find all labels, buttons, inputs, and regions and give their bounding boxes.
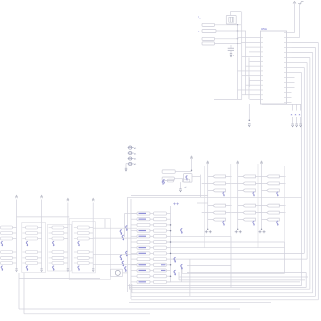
mid cell column 6 xyxy=(232,161,262,233)
wire feeder x24 xyxy=(23,273,25,314)
buzzer LS1 xyxy=(111,269,128,276)
header P1 pin2 xyxy=(202,30,246,33)
wire net R2 xyxy=(131,48,316,297)
box around cell 2 xyxy=(22,223,46,273)
wire nested N5 xyxy=(129,301,271,303)
wire row6 route xyxy=(167,247,285,249)
wire crystal top xyxy=(231,12,242,16)
wire ladder x237 xyxy=(237,25,239,99)
wire left edge A xyxy=(127,197,129,292)
ground G4 xyxy=(179,189,181,192)
mid cell edge 4 xyxy=(284,166,286,242)
net label RX xyxy=(199,30,200,33)
svg-text:z: z xyxy=(233,55,234,57)
junction dots top xyxy=(237,24,238,44)
wire ladder x241 xyxy=(241,12,243,100)
wire pin stub 87 xyxy=(292,87,295,89)
diodes D1-D4 xyxy=(128,146,138,166)
wire nested N6 xyxy=(19,308,240,310)
wire diode gnd xyxy=(125,164,128,172)
opto cell column 3 rows xyxy=(49,226,68,270)
rail 4 xyxy=(92,198,94,271)
wire ladder runs left of U1 xyxy=(214,57,254,100)
wire feeder x19 xyxy=(18,273,20,309)
net label rows with resistors xyxy=(131,212,171,284)
resistors R20-R22 with grounds xyxy=(291,104,302,127)
wire ladder x249 xyxy=(248,58,250,100)
wire link col5 xyxy=(197,202,208,204)
power flag VCC xyxy=(298,2,304,38)
glyph right B xyxy=(174,270,176,275)
net label X2 xyxy=(198,17,201,21)
wire feeder x134 xyxy=(129,284,132,293)
glyphs left of rows xyxy=(120,226,127,272)
ground below C1 xyxy=(230,54,234,57)
wire pin stub 77 xyxy=(292,77,295,79)
wire net R5 xyxy=(171,63,308,260)
mid cell column 5 xyxy=(202,161,232,233)
wire under U1 xyxy=(248,104,250,120)
glyph right E xyxy=(181,264,183,269)
header P1 pin1 xyxy=(202,23,241,26)
wire ladder x249b xyxy=(248,77,250,87)
wire feeder x182 xyxy=(181,270,183,273)
wire ladder x245 xyxy=(245,31,247,95)
wire nested N4 xyxy=(179,276,308,278)
wire row4 route xyxy=(167,236,232,287)
wire glyph2 drop xyxy=(181,267,183,282)
wire nested N2 xyxy=(179,279,305,281)
wire pin stub 82 xyxy=(292,82,295,84)
resistor R12 xyxy=(162,177,184,180)
IC U6 xyxy=(184,174,192,183)
header P1 pin3 xyxy=(202,37,238,40)
collector wire x170 xyxy=(170,206,172,282)
wire U6 down xyxy=(179,182,181,189)
wire glyph corner xyxy=(189,259,191,296)
rail 2 xyxy=(40,195,42,271)
wire feeder x179 xyxy=(178,272,180,280)
U1 left pins xyxy=(238,37,263,100)
IC U1 body xyxy=(261,27,287,104)
wire staircase B xyxy=(125,214,138,238)
box around cell 3 xyxy=(48,224,72,271)
svg-text:U5A: U5A xyxy=(261,27,267,31)
outer module box xyxy=(69,219,110,280)
wire nested N7 xyxy=(24,313,150,315)
glyph near R12 xyxy=(162,181,163,185)
wire U1 bottom xyxy=(262,103,301,105)
power flag VDD xyxy=(293,2,296,33)
box around cell 4 xyxy=(72,222,95,273)
plus marks blue xyxy=(173,203,179,206)
wire row13 ext xyxy=(167,281,301,283)
opto cell column 4 rows xyxy=(74,226,93,270)
crystal Y1 xyxy=(226,16,236,25)
wire nested N3 xyxy=(129,273,306,288)
wire net R3 xyxy=(132,53,313,293)
wire net R7 xyxy=(128,73,302,286)
header P1 pin4 xyxy=(202,42,241,45)
U1 right pins xyxy=(285,32,292,103)
wire left edge B xyxy=(130,199,132,299)
net label under U6 xyxy=(185,187,187,189)
mid cell edge 2 xyxy=(230,164,232,248)
mid cell edge 1 xyxy=(204,166,206,248)
opto cell column 2 rows xyxy=(22,226,41,270)
bus wire y217 xyxy=(17,216,70,218)
rail 3 xyxy=(67,198,69,271)
wire staircase A xyxy=(104,219,106,228)
bus wire top B xyxy=(128,196,302,198)
wire stub y278 xyxy=(19,278,100,280)
wire pin2 to VCC xyxy=(292,37,300,39)
wire net R6 xyxy=(171,68,305,254)
wire pin1 to VDD xyxy=(292,32,295,34)
top bits boxes xyxy=(163,179,190,183)
capacitor C1 xyxy=(228,45,234,54)
rail 1 xyxy=(15,195,17,271)
wires left of rows xyxy=(94,228,138,264)
wire nested N1 xyxy=(182,272,285,274)
wire row5 route xyxy=(167,242,285,273)
resistor R11 xyxy=(162,170,189,173)
power arrow A1 xyxy=(190,156,192,159)
wire R11 up xyxy=(189,158,192,172)
glyph right A xyxy=(174,257,176,262)
wire net R4 xyxy=(129,58,310,290)
glyph right D xyxy=(181,228,183,233)
mid cell edge 3 xyxy=(257,164,259,248)
wire U6 right xyxy=(192,175,200,198)
opto cell column 1 rows xyxy=(1,226,17,270)
wire net R1 xyxy=(131,43,318,300)
mid cell column 7 xyxy=(256,161,286,233)
bus wire top A xyxy=(131,194,208,196)
power flag PF2 xyxy=(248,120,250,127)
